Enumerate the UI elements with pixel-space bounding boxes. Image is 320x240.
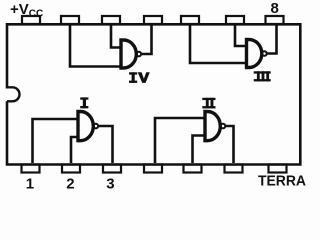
pin 6 (bottom) [225,165,243,173]
pin 8 (top) [266,16,284,24]
wire pin 9 to gate III input A [235,26,246,47]
IC body outline [7,24,300,164]
wire pin 13 to gate IV input B [70,26,121,67]
wire pin 5 to gate II input B [193,136,205,164]
pin 7 (bottom, TERRA) [269,165,287,173]
wire gate I output to pin 3 [99,126,113,163]
wire pin 10 to gate III input B [190,26,246,64]
gate II (NAND) [205,112,225,141]
wire pin 2 to gate I input B [71,137,78,163]
IC notch [7,87,20,101]
wire pin 4 to gate II input A [155,118,205,163]
label gate IV [129,72,150,83]
pin 13 (top) [61,16,79,24]
pin 1 (bottom) [22,165,40,173]
svg-text:8: 8 [271,0,279,17]
pin 12 (top) [102,16,120,24]
svg-text:1: 1 [26,176,34,192]
wire gate II output to pin 6 [226,126,234,163]
pin 14 (top, +Vcc) [22,16,40,24]
pin 9 (top) [226,16,244,24]
svg-text:3: 3 [106,176,114,192]
gate III (NAND) [247,40,267,68]
wire gate III output to pin 8 [267,26,277,54]
gate I (NAND) [78,112,98,141]
wire gate IV output to pin 11 [142,26,152,55]
pin 2 (bottom) [62,165,80,173]
wire pin 12 to gate IV input A [111,26,121,48]
wire pin 1 to gate I input A [33,119,78,163]
pin 5 (bottom) [184,165,202,173]
gate IV (NAND) [121,40,141,68]
pin 4 (bottom) [144,165,162,173]
svg-text:TERRA: TERRA [258,173,306,190]
pin 3 (bottom) [103,165,121,173]
label gate I [80,97,88,108]
pin 11 (top) [144,16,162,24]
label gate II [202,98,215,109]
label gate III [254,71,271,81]
pin 10 (top) [181,16,199,24]
svg-text:2: 2 [66,176,74,192]
